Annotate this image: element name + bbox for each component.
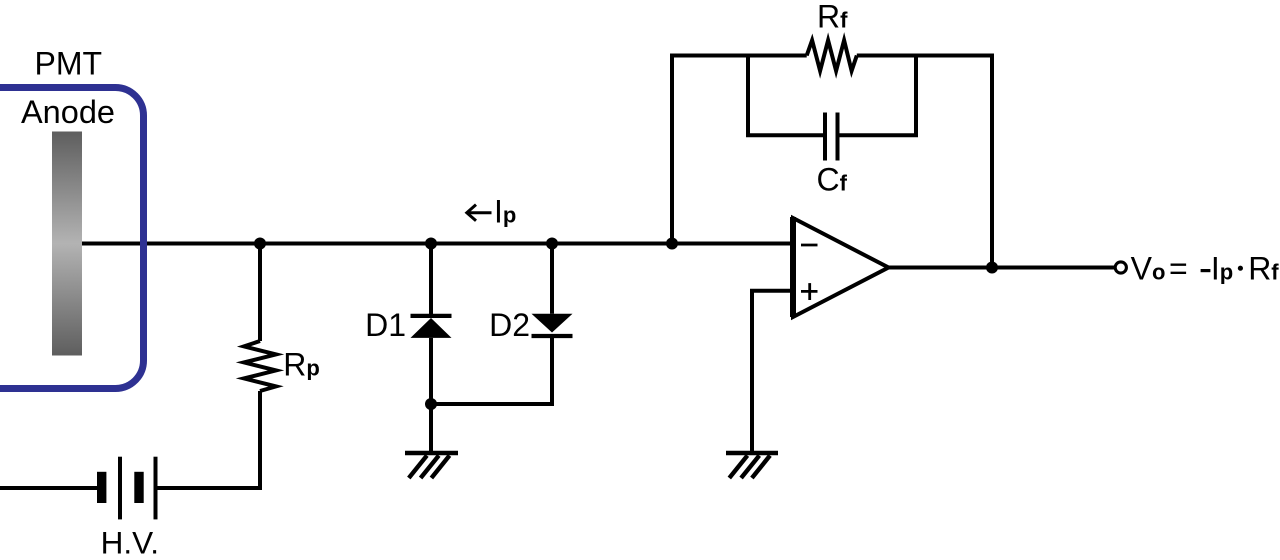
- node: main line / feedback junction: [666, 238, 678, 250]
- resistor Rp: [244, 341, 276, 391]
- ground (op-amp + input): [726, 453, 778, 478]
- svg-text:Rf: Rf: [817, 0, 848, 35]
- battery H.V. (two cells): [97, 457, 158, 520]
- wire: capacitor branch right: [840, 56, 917, 136]
- svg-text:D1: D1: [365, 307, 406, 343]
- svg-text:Ip: Ip: [494, 193, 516, 229]
- wire: non-inverting input to ground: [752, 291, 792, 451]
- node: main line / D1 junction: [425, 238, 437, 250]
- wire: feedback loop left vertical and top-left segment: [672, 56, 807, 244]
- wire: battery to left edge: [0, 486, 97, 490]
- wire: capacitor branch left: [748, 56, 823, 136]
- wire: Rp branch down from main line: [258, 244, 262, 342]
- diode D1 (cathode bar on top, triangle pointing up): [411, 316, 452, 404]
- PMT envelope (blue rounded rectangle): [0, 88, 144, 389]
- output terminal (open circle): [1115, 262, 1126, 273]
- op-amp U1: [793, 217, 889, 317]
- wire: to ground 1: [429, 404, 433, 451]
- svg-text:Anode: Anode: [21, 94, 115, 130]
- label Vo = -Ip x Rf: [1131, 251, 1280, 287]
- node: output / feedback junction: [986, 262, 998, 274]
- svg-text:PMT: PMT: [35, 45, 103, 81]
- capacitor Cf: [825, 113, 838, 161]
- svg-text:Cf: Cf: [817, 161, 848, 197]
- resistor Rf: [807, 40, 857, 71]
- wire: main signal line from anode to op-amp inverting input: [82, 242, 792, 246]
- label current arrow Ip: [467, 193, 517, 229]
- svg-text:D2: D2: [489, 307, 530, 343]
- wire: feedback top-right segment and right vertical: [857, 56, 992, 268]
- node: main line / D2 junction: [546, 238, 558, 250]
- wire: D2 branch: [550, 244, 554, 314]
- svg-text:H.V.: H.V.: [101, 525, 159, 560]
- anode electrode (gray bar): [52, 132, 82, 356]
- node: main line / Rp junction: [254, 238, 266, 250]
- svg-text:Vo: Vo: [1131, 251, 1166, 287]
- wire: op-amp output: [888, 266, 1115, 270]
- wire: D1 branch: [429, 244, 433, 317]
- diode D2 (triangle pointing down, cathode bar below): [431, 314, 573, 404]
- node: D1 / bottom wire junction: [425, 398, 437, 410]
- svg-text:Rf: Rf: [1248, 251, 1279, 287]
- svg-text:=: =: [1169, 251, 1188, 287]
- wire: Rp to battery: [158, 391, 261, 488]
- svg-text:Ip: Ip: [1211, 251, 1233, 287]
- ground (diodes): [405, 453, 458, 478]
- svg-text:Rp: Rp: [283, 347, 320, 383]
